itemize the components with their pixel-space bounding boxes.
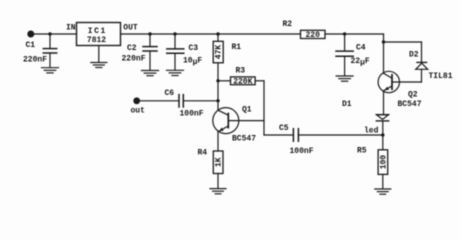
svg-text:220K: 220K [233,78,252,87]
svg-text:BC547: BC547 [398,100,422,109]
svg-text:C1: C1 [26,41,36,50]
svg-text:R2: R2 [283,20,293,29]
svg-text:C2: C2 [127,44,137,53]
svg-text:IN: IN [66,24,76,33]
svg-text:7812: 7812 [87,36,106,45]
svg-text:100nF: 100nF [180,110,204,119]
svg-text:out: out [131,107,146,116]
svg-text:C3: C3 [189,44,199,53]
svg-text:C4: C4 [356,44,366,53]
svg-text:100: 100 [380,155,389,170]
svg-text:R1: R1 [232,43,242,52]
svg-text:10µF: 10µF [183,57,202,68]
svg-text:C6: C6 [165,89,175,98]
svg-text:C5: C5 [279,124,289,133]
svg-text:BC547: BC547 [232,135,256,144]
svg-text:1K: 1K [215,157,224,167]
svg-text:47K: 47K [215,45,224,60]
svg-text:led: led [364,127,379,136]
svg-text:220nF: 220nF [122,54,146,63]
svg-text:Q2: Q2 [408,91,418,100]
svg-text:R4: R4 [198,149,208,158]
svg-text:Q1: Q1 [242,106,252,115]
svg-text:R5: R5 [357,147,367,156]
svg-text:220: 220 [305,31,320,40]
svg-text:TIL81: TIL81 [429,72,453,81]
svg-text:D2: D2 [409,50,419,59]
svg-text:D1: D1 [342,100,352,109]
svg-text:IC1: IC1 [88,27,107,36]
svg-text:100nF: 100nF [290,147,314,156]
svg-text:220nF: 220nF [23,55,47,64]
svg-text:R3: R3 [236,67,246,76]
svg-text:22µF: 22µF [351,57,370,68]
svg-text:OUT: OUT [123,24,138,33]
